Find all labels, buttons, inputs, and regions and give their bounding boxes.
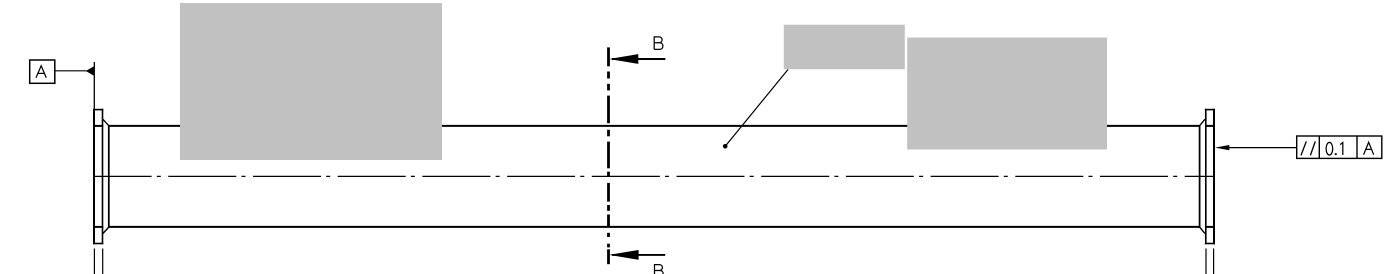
right tube end line <box>1199 125 1201 228</box>
section arrow top <box>612 58 665 60</box>
datum leader <box>55 70 87 72</box>
tube top line <box>93 125 1215 127</box>
centerline <box>94 175 1214 177</box>
tolerance value 0.1 <box>1326 142 1343 155</box>
left tube end line <box>108 125 110 228</box>
parallelism symbol <box>1301 141 1306 155</box>
extension lines below right flange <box>1206 249 1214 274</box>
label B top <box>654 37 663 50</box>
leader line <box>725 70 788 147</box>
FCF leader <box>1229 147 1297 149</box>
FCF arrowhead <box>1215 145 1229 150</box>
redaction box 2 (small, middle-top) <box>784 25 905 69</box>
left flange outline <box>93 109 103 245</box>
leader dot <box>723 144 728 149</box>
feature control frame <box>1297 136 1382 158</box>
left chamfer bottom <box>103 227 109 234</box>
label B bottom <box>655 265 664 274</box>
datum reference A <box>1364 142 1374 154</box>
right flange outline <box>1205 109 1215 245</box>
redaction box 3 (right) <box>907 38 1107 150</box>
section line B-B <box>607 47 610 264</box>
left chamfer top <box>103 119 109 126</box>
redaction box 1 (large, top-left) <box>180 3 442 160</box>
extension lines below left flange <box>94 249 102 274</box>
tube bottom line <box>93 226 1215 228</box>
right chamfer top <box>1200 119 1205 126</box>
section arrow bottom <box>612 254 665 256</box>
datum extension line <box>93 62 95 109</box>
datum feature symbol A <box>30 60 55 83</box>
datum triangle <box>86 66 94 75</box>
right chamfer bottom <box>1200 227 1205 234</box>
